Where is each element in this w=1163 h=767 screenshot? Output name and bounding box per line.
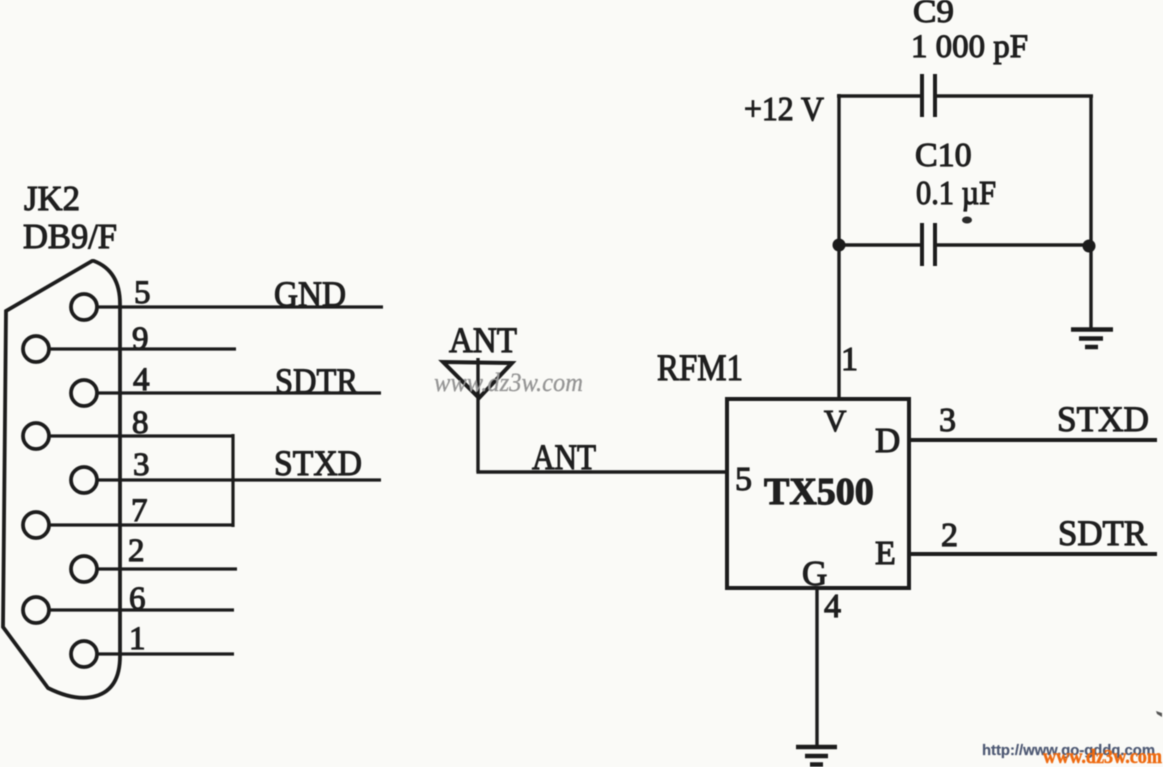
- wire top rail right segment: [937, 94, 1093, 97]
- pin 5 circle: [71, 294, 97, 320]
- svg-text:www.dz3w.com: www.dz3w.com: [1043, 746, 1162, 767]
- svg-text:D: D: [875, 421, 900, 460]
- pin 6 circle: [23, 597, 49, 623]
- svg-text:0.1 µF: 0.1 µF: [916, 175, 996, 212]
- svg-text:2: 2: [128, 533, 145, 569]
- svg-text:1: 1: [129, 621, 146, 657]
- wire ANT to pin5 of TX500: [476, 470, 727, 473]
- pin 3 circle: [71, 467, 97, 493]
- wire right vertical to ground: [1089, 96, 1092, 328]
- svg-text:V: V: [824, 403, 847, 438]
- wire top rail left segment: [837, 94, 920, 97]
- capacitor C9 plates: [922, 74, 935, 117]
- wire mid rail left segment: [838, 243, 920, 246]
- svg-text:DB9/F: DB9/F: [23, 217, 117, 256]
- svg-text:www.dz3w.com: www.dz3w.com: [434, 368, 583, 397]
- svg-text:TX500: TX500: [764, 471, 874, 513]
- wire pin2: [97, 567, 237, 570]
- pin 4 circle: [71, 380, 97, 406]
- wire pin D STXD: [909, 438, 1157, 442]
- svg-text:SDTR: SDTR: [275, 361, 358, 401]
- svg-text:STXD: STXD: [1057, 399, 1149, 439]
- junction dot left: [833, 239, 846, 252]
- svg-text:5: 5: [735, 461, 752, 498]
- svg-text:C10: C10: [915, 137, 972, 174]
- svg-text:E: E: [875, 535, 896, 572]
- antenna mast: [476, 358, 479, 472]
- svg-text:SDTR: SDTR: [1058, 513, 1147, 553]
- wire pin7: [49, 523, 234, 526]
- svg-text:4: 4: [133, 362, 150, 398]
- svg-text:RFM1: RFM1: [657, 348, 743, 389]
- svg-text:4: 4: [824, 588, 841, 625]
- wire pin6: [49, 608, 234, 611]
- svg-text:GND: GND: [274, 274, 346, 314]
- wire pin9: [49, 347, 236, 350]
- wire pin G down: [815, 588, 818, 746]
- wire mid rail right segment: [937, 243, 1090, 246]
- ground below G pin: [796, 747, 837, 765]
- svg-text:STXD: STXD: [274, 443, 362, 483]
- svg-text:7: 7: [131, 493, 148, 529]
- wire pin8: [49, 434, 234, 437]
- pin 1 circle: [71, 641, 97, 667]
- svg-text:1 000 pF: 1 000 pF: [911, 29, 1028, 65]
- svg-text:ANT: ANT: [449, 320, 517, 360]
- svg-text:6: 6: [129, 581, 146, 617]
- ink speck: [962, 217, 972, 224]
- pin 7 circle: [23, 512, 49, 538]
- connector JK2 DB9/F shell: [3, 261, 120, 698]
- pin 2 circle: [71, 556, 97, 582]
- svg-text:ANT: ANT: [532, 437, 596, 477]
- ink speck top-right corner: [1156, 711, 1162, 717]
- wire bracket pin8-pin7: [231, 434, 234, 527]
- antenna triangle: [443, 362, 512, 398]
- svg-text:3: 3: [133, 447, 150, 483]
- svg-text:1: 1: [841, 341, 858, 378]
- wire pin3 STXD: [97, 478, 381, 481]
- wire pin1: [97, 652, 234, 655]
- wire pin E SDTR: [909, 552, 1157, 556]
- wire pin4 SDTR: [97, 391, 381, 394]
- svg-text:+12 V: +12 V: [744, 91, 824, 128]
- wire pin5 GND: [97, 305, 383, 308]
- svg-text:2: 2: [941, 517, 958, 554]
- svg-text:3: 3: [939, 402, 956, 439]
- svg-text:JK2: JK2: [24, 179, 80, 218]
- junction dot right: [1083, 240, 1096, 253]
- svg-text:8: 8: [132, 405, 149, 441]
- svg-text:9: 9: [132, 321, 149, 357]
- svg-text:C9: C9: [913, 0, 954, 30]
- pin 9 circle: [23, 336, 49, 362]
- svg-text:5: 5: [134, 275, 151, 311]
- capacitor C10 plates: [922, 223, 935, 266]
- pin 8 circle: [23, 423, 49, 449]
- ground right: [1071, 330, 1113, 348]
- wire +12V vertical to pin V: [837, 94, 840, 399]
- IC RFM1 TX500 box: [727, 399, 909, 588]
